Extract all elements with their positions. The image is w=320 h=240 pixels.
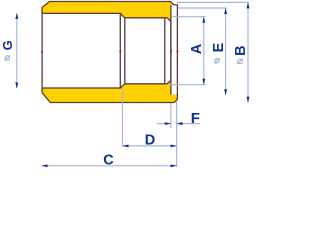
dimension E arrow up — [224, 8, 227, 14]
dimension D line — [123, 145, 177, 147]
dimension F line left tail — [157, 123, 171, 125]
dimension D left extension — [122, 89, 124, 147]
dimension B line — [247, 2, 249, 102]
dimension B arrow up — [247, 2, 250, 8]
dimension B arrow down — [247, 97, 250, 103]
svg-text:G: G — [0, 40, 15, 50]
internal end face — [170, 5, 172, 95]
node midpoint end face — [177, 50, 179, 52]
dimension D arrow right end — [171, 144, 177, 147]
label E diameter symbol — [214, 58, 219, 63]
bore cavity white — [42, 13, 171, 88]
dimension E top extension — [178, 7, 227, 9]
dimension G arrow down — [15, 83, 18, 89]
outer outline — [42, 2, 177, 103]
node midpoint internal face — [170, 50, 172, 52]
end cone circle edge — [164, 18, 166, 83]
dimension D arrow left end — [123, 144, 129, 147]
end wall white strip — [171, 5, 177, 95]
svg-text:B: B — [233, 45, 249, 55]
bore step circle edge large — [119, 13, 121, 88]
dimension E arrow down — [224, 89, 227, 95]
dimension G line — [16, 13, 18, 88]
bore step circle edge small — [124, 18, 126, 84]
dimension A line — [203, 17, 205, 85]
dimension A arrow up — [202, 17, 205, 23]
dimension C line — [42, 165, 177, 167]
dimension E line — [225, 8, 227, 95]
dimension A bottom extension — [167, 84, 206, 86]
dimension F arrow right-pointing — [165, 122, 171, 125]
node midpoint left face — [41, 51, 43, 53]
dimension F arrow left-pointing — [177, 122, 183, 125]
svg-text:E: E — [211, 42, 227, 52]
svg-text:A: A — [189, 43, 205, 54]
dimension A arrow down — [202, 79, 205, 85]
svg-text:D: D — [145, 132, 155, 148]
dimension G arrow up — [15, 13, 18, 19]
dimension C arrow left end — [42, 164, 48, 167]
svg-text:F: F — [191, 110, 200, 127]
dimension B top extension — [177, 1, 249, 3]
node midpoint step — [119, 50, 121, 52]
part body yellow hexagon section — [42, 2, 177, 103]
dimension A top extension — [172, 16, 206, 18]
bore outline — [42, 13, 171, 88]
dimension F line right tail — [177, 123, 201, 125]
svg-text:C: C — [103, 153, 114, 169]
shared right extension for F D C — [176, 102, 178, 168]
label G diameter symbol — [5, 55, 10, 60]
label B diameter symbol — [237, 59, 242, 64]
dimension C arrow right end — [171, 164, 177, 167]
dimension F left extension — [170, 103, 172, 128]
